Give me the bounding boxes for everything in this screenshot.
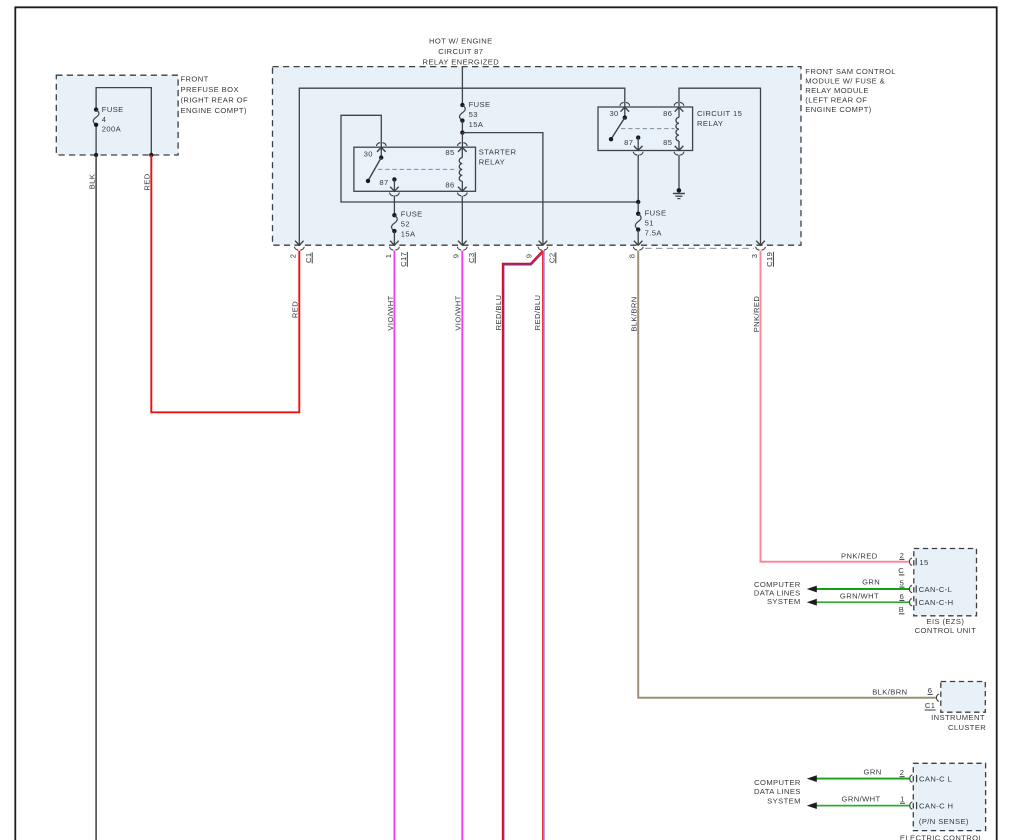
node: junction at fuse 51 (636, 200, 640, 204)
wire: SAM pin 2 C1 riser to circuit 15 relay pin 30 (299, 88, 625, 245)
EIS pin 6 CAN-C-H (GRN/WHT) (807, 592, 954, 607)
circuit 15 relay body (598, 107, 693, 151)
svg-text:(LEFT REAR OF: (LEFT REAR OF (805, 96, 867, 105)
svg-text:(RIGHT REAR OF: (RIGHT REAR OF (181, 96, 248, 105)
svg-text:7.5A: 7.5A (645, 228, 663, 237)
svg-text:GRN/WHT: GRN/WHT (842, 795, 881, 804)
svg-text:FRONT: FRONT (181, 75, 209, 84)
svg-text:C19: C19 (765, 252, 774, 267)
svg-text:C17: C17 (399, 252, 408, 267)
wire: starter relay 87 to fuse 52 (393, 195, 395, 215)
circuit 15 relay coil pin 86 (663, 102, 684, 141)
electric control pin 1 CAN-C H (GRN/WHT) (807, 795, 954, 811)
svg-text:(P/N SENSE): (P/N SENSE) (919, 817, 969, 826)
front SAM control module (dashed enclosure) (273, 67, 802, 246)
electric control pin 2 CAN-C L (GRN) (807, 768, 952, 784)
svg-text:3: 3 (750, 254, 759, 259)
svg-text:HOT W/ ENGINE: HOT W/ ENGINE (429, 37, 493, 46)
SAM pin 8 (628, 241, 643, 259)
svg-text:C3: C3 (467, 253, 476, 264)
wire: fuse 53 branch to SAM pin 9 C2 (462, 133, 543, 245)
front prefuse box (dashed enclosure) (56, 75, 178, 155)
svg-text:RED/BLU: RED/BLU (494, 295, 503, 331)
label: INSTRUMENT CLUSTER (931, 713, 986, 732)
svg-text:51: 51 (645, 218, 654, 227)
circuit 15 relay pin 85 (663, 138, 684, 155)
svg-text:INSTRUMENT: INSTRUMENT (931, 713, 985, 722)
wire: circuit 15 relay 87 down to junction (637, 155, 639, 202)
wire RED (prefuse to SAM pin 2 C1) (143, 155, 300, 412)
node: prefuse RED terminal (149, 153, 153, 157)
starter relay pin 86 (445, 181, 467, 196)
wire: prefuse internal loop (96, 88, 151, 155)
svg-text:CIRCUIT 15: CIRCUIT 15 (697, 109, 742, 118)
label: COMPUTER DATA LINES SYSTEM (EIS) (754, 580, 801, 606)
starter relay coil pin 85 (445, 143, 467, 182)
starter relay switch (366, 155, 384, 183)
svg-text:86: 86 (663, 109, 672, 118)
instrument cluster pin 6 connector C1 (872, 686, 939, 710)
svg-text:VIO/WHT: VIO/WHT (386, 295, 395, 330)
svg-text:FUSE: FUSE (469, 100, 491, 109)
circuit 15 relay switch (609, 115, 627, 141)
svg-text:2: 2 (900, 768, 905, 777)
svg-text:FUSE: FUSE (401, 210, 423, 219)
label: COMPUTER DATA LINES SYSTEM (electric control) (754, 778, 801, 806)
wire BLK (88, 155, 97, 840)
svg-text:5: 5 (900, 579, 905, 588)
svg-text:ENGINE COMPT): ENGINE COMPT) (805, 105, 871, 114)
node: prefuse BLK terminal (94, 153, 98, 157)
circuit 15 relay pin 87 (624, 135, 643, 155)
svg-text:FUSE: FUSE (102, 105, 124, 114)
fuse 51 7.5A (635, 202, 666, 245)
SAM pin 9 connector C3 (452, 241, 476, 264)
fuse 53 15A (460, 100, 491, 132)
node: fuse 53 output junction (460, 130, 464, 134)
wire: fuse 53 to starter relay pin 85 (461, 133, 463, 147)
wire BLK/BRN from pin 8 to instrument cluster (630, 251, 937, 698)
label: FRONT SAM CONTROL MODULE (805, 67, 896, 114)
svg-text:PNK/RED: PNK/RED (841, 552, 878, 561)
svg-text:GRN: GRN (864, 768, 882, 777)
svg-text:GRN/WHT: GRN/WHT (840, 592, 879, 601)
svg-text:MODULE W/ FUSE &: MODULE W/ FUSE & (805, 77, 885, 86)
svg-text:RELAY MODULE: RELAY MODULE (805, 86, 869, 95)
svg-text:87: 87 (379, 178, 388, 187)
svg-text:CIRCUIT 87: CIRCUIT 87 (438, 47, 483, 56)
svg-text:SYSTEM: SYSTEM (767, 797, 801, 806)
svg-text:8: 8 (628, 254, 637, 259)
svg-text:4: 4 (102, 115, 107, 124)
svg-text:9: 9 (452, 254, 461, 259)
svg-text:CLUSTER: CLUSTER (948, 723, 986, 732)
svg-text:30: 30 (609, 109, 618, 118)
fuse 4 200A (93, 105, 123, 133)
svg-text:85: 85 (445, 148, 454, 157)
svg-text:200A: 200A (102, 124, 122, 133)
wire: starter relay 86 to SAM pin 9 C3 (461, 196, 463, 245)
svg-text:15: 15 (919, 558, 928, 567)
svg-text:DATA LINES: DATA LINES (754, 787, 801, 796)
wire: circuit 15 relay 85 to ground (678, 155, 680, 191)
svg-text:52: 52 (401, 220, 410, 229)
svg-text:1: 1 (900, 795, 905, 804)
svg-text:CONTROL UNIT: CONTROL UNIT (915, 626, 976, 635)
svg-text:PNK/RED: PNK/RED (752, 296, 761, 333)
wire VIO/WHT from C3 (454, 251, 463, 840)
instrument cluster box (941, 682, 986, 713)
circuit 15 relay pin 30 (609, 102, 629, 118)
svg-text:CAN-C-H: CAN-C-H (919, 598, 954, 607)
svg-text:ENGINE COMPT): ENGINE COMPT) (181, 106, 247, 115)
SAM pin 9 connector C2 (525, 241, 557, 264)
svg-text:85: 85 (663, 138, 672, 147)
label: FRONT PREFUSE BOX (181, 75, 248, 116)
SAM pin 3 connector C19 (750, 241, 774, 267)
starter relay body (354, 147, 476, 191)
label: HOT W/ ENGINE CIRCUIT 87 RELAY ENERGIZED (422, 37, 499, 67)
SAM pin 1 connector C17 (384, 241, 408, 267)
svg-text:RELAY ENERGIZED: RELAY ENERGIZED (422, 58, 499, 67)
svg-text:FUSE: FUSE (645, 208, 667, 217)
svg-text:CAN-C L: CAN-C L (919, 774, 952, 783)
svg-text:6: 6 (928, 686, 933, 695)
svg-text:BLK/BRN: BLK/BRN (630, 296, 639, 331)
svg-text:EIS (EZS): EIS (EZS) (927, 617, 965, 626)
svg-text:30: 30 (364, 149, 373, 158)
svg-text:15A: 15A (401, 230, 416, 239)
svg-text:C2: C2 (548, 253, 557, 264)
ground (673, 188, 685, 199)
svg-text:RELAY: RELAY (479, 157, 505, 166)
SAM connector C19 boundary (dashed) (645, 247, 754, 249)
label: EIS (EZS) CONTROL UNIT (915, 617, 976, 635)
svg-text:86: 86 (445, 181, 454, 190)
svg-text:BLK/BRN: BLK/BRN (872, 687, 907, 696)
wire VIO/WHT from C17 (386, 251, 395, 840)
svg-text:6: 6 (900, 592, 905, 601)
EIS (EZS) control unit box (914, 549, 977, 616)
svg-text:SYSTEM: SYSTEM (767, 597, 801, 606)
svg-text:2: 2 (900, 551, 905, 560)
label: CIRCUIT 15 RELAY (697, 109, 742, 128)
EIS connector B label (899, 605, 905, 614)
svg-text:87: 87 (624, 138, 633, 147)
EIS pin 2 connector C (PNK/RED) (841, 551, 929, 575)
svg-text:53: 53 (469, 110, 478, 119)
starter relay pin 30 (364, 143, 386, 159)
svg-text:RED: RED (291, 301, 300, 318)
svg-text:B: B (899, 605, 904, 614)
svg-text:ELECTRIC CONTROL: ELECTRIC CONTROL (900, 833, 983, 840)
wire: circuit 15 relay 86 to SAM pin 3 C19 (679, 88, 761, 245)
electric control box (913, 763, 985, 830)
svg-text:CAN-C-L: CAN-C-L (919, 585, 953, 594)
svg-text:VIO/WHT: VIO/WHT (454, 295, 463, 330)
svg-text:RELAY: RELAY (697, 119, 723, 128)
svg-text:CAN-C H: CAN-C H (919, 801, 953, 810)
svg-text:1: 1 (384, 254, 393, 259)
fuse 52 15A (392, 210, 423, 245)
wire RED/BLU from C2 (right) (533, 251, 545, 840)
wire PNK/RED from C19 to EIS control unit (752, 251, 909, 562)
svg-text:2: 2 (289, 254, 298, 259)
svg-text:C1: C1 (304, 253, 313, 264)
svg-text:15A: 15A (469, 120, 484, 129)
svg-text:GRN: GRN (862, 577, 880, 586)
svg-text:BLK: BLK (88, 174, 97, 190)
svg-text:9: 9 (525, 254, 534, 259)
svg-text:COMPUTER: COMPUTER (754, 778, 801, 787)
label: STARTER RELAY (479, 147, 517, 166)
svg-text:PREFUSE BOX: PREFUSE BOX (181, 85, 239, 94)
svg-text:RED/BLU: RED/BLU (533, 295, 542, 331)
EIS pin 5 CAN-C-L (GRN) (807, 577, 952, 594)
wire RED/BLU branch from C2 (left) (494, 251, 544, 840)
SAM pin 2 connector C1 (289, 241, 313, 264)
svg-text:C1: C1 (925, 701, 936, 710)
starter relay pin 87 (379, 177, 399, 196)
svg-text:RED: RED (143, 173, 152, 190)
svg-text:FRONT SAM CONTROL: FRONT SAM CONTROL (805, 67, 896, 76)
svg-text:STARTER: STARTER (479, 147, 517, 156)
svg-text:C: C (898, 566, 904, 575)
wire: junction to starter relay 30 (loop) (341, 115, 638, 202)
wire: battery feed into fuse 53 (461, 67, 463, 105)
